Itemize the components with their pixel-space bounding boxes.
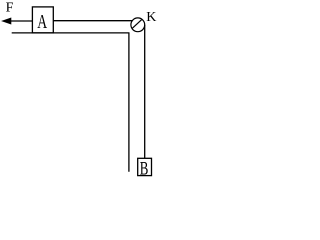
pulley axle slash [132, 20, 141, 29]
table top [12, 32, 130, 34]
svg-text:F: F [6, 1, 14, 16]
svg-text:K: K [146, 10, 156, 25]
wire: rope from block A to pulley K [53, 20, 132, 22]
table right edge [128, 33, 130, 172]
force arrow F [2, 18, 33, 24]
pulley K [131, 18, 145, 32]
svg-text:B: B [140, 159, 149, 179]
wire: rope from pulley K down to block B [144, 25, 146, 159]
block B [138, 158, 152, 175]
block A [32, 7, 53, 33]
svg-text:A: A [37, 11, 47, 33]
